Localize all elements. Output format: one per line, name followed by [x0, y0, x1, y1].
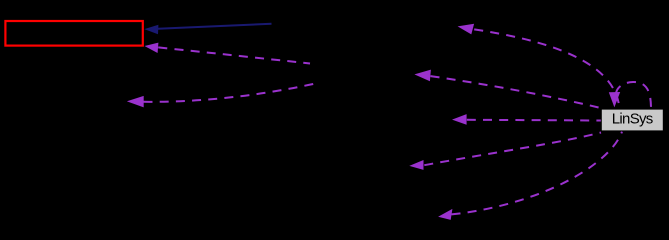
- edge LinSys fan 1: arrowhead: [458, 24, 475, 35]
- edge usage B: arrowhead: [127, 96, 144, 108]
- edge usage B (to node at 127,101): wire: [144, 83, 321, 102]
- edge LinSys self-loop: wire: [616, 82, 651, 109]
- edge LinSys fan 4: wire: [424, 133, 601, 166]
- node main (red border, current class): [5, 21, 142, 46]
- edge LinSys fan 5: arrowhead: [438, 209, 452, 220]
- edge LinSys fan 5 (bottom): wire: [452, 132, 623, 215]
- node LinSys: [601, 109, 663, 131]
- edge inheritance blue: wire: [158, 24, 272, 29]
- svg-text:LinSys: LinSys: [612, 111, 653, 128]
- edge LinSys fan 4: arrowhead: [409, 160, 423, 170]
- edge usage A (to red box corner): wire: [158, 47, 310, 63]
- edge LinSys fan 2: arrowhead: [414, 70, 431, 82]
- edge LinSys fan 2: wire: [431, 76, 604, 108]
- edge LinSys fan 1 (to top): wire: [474, 29, 619, 105]
- edge LinSys self-loop: arrowhead: [609, 92, 620, 107]
- edge inheritance blue: arrowhead: [144, 25, 158, 34]
- edge LinSys fan 3 (horizontal): wire: [467, 119, 601, 122]
- edge LinSys fan 3: arrowhead: [452, 114, 467, 125]
- edge usage A: arrowhead: [145, 43, 159, 53]
